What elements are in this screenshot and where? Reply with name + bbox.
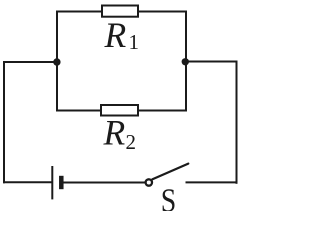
wire top branch left segment — [57, 11, 103, 13]
svg-text:S: S — [161, 181, 177, 211]
wire bottom branch right segment — [137, 110, 186, 112]
resistor R1 — [102, 6, 138, 17]
wire top branch right segment — [137, 11, 187, 13]
node junction right — [182, 58, 189, 65]
switch blade — [152, 164, 188, 180]
wire battery to switch — [64, 182, 146, 184]
wire inner left vertical — [56, 11, 58, 112]
battery short thick plate (negative) — [59, 176, 64, 189]
svg-text:R: R — [103, 113, 126, 153]
wire bottom left segment — [3, 181, 52, 183]
svg-text:2: 2 — [126, 130, 137, 154]
wire inner right vertical — [185, 11, 187, 112]
wire bottom branch left segment — [57, 110, 102, 112]
svg-text:R: R — [104, 15, 127, 55]
switch pivot circle — [146, 179, 152, 185]
wire bottom right segment — [186, 181, 238, 183]
resistor R2 — [101, 105, 138, 116]
wire right outer vertical — [236, 61, 238, 184]
battery long plate (positive) — [51, 166, 53, 199]
svg-text:1: 1 — [129, 30, 140, 54]
wire left connector — [4, 61, 57, 63]
wire right connector — [186, 61, 237, 63]
wire left outer vertical — [3, 61, 5, 183]
node junction left — [53, 58, 60, 65]
